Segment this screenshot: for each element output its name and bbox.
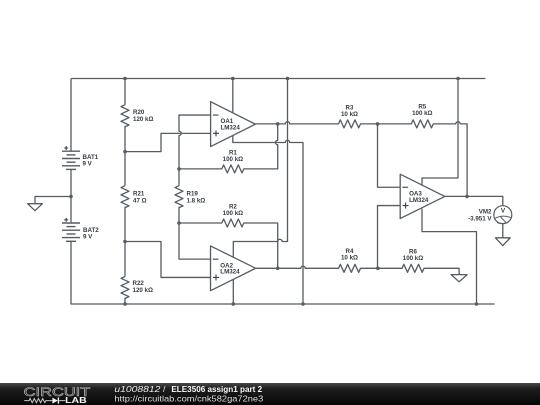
svg-text:100 kΩ: 100 kΩ <box>403 255 423 262</box>
svg-text:LM324: LM324 <box>409 197 429 204</box>
svg-text:R19: R19 <box>187 191 199 198</box>
svg-text:100 kΩ: 100 kΩ <box>223 156 243 163</box>
svg-text:http://circuitlab.com/cnk582ga: http://circuitlab.com/cnk582ga72ne3 <box>114 393 263 403</box>
svg-text:R21: R21 <box>133 191 145 198</box>
svg-text:9 V: 9 V <box>83 161 93 168</box>
svg-text:-3.951 V: -3.951 V <box>468 216 492 223</box>
svg-text:LAB: LAB <box>65 396 87 405</box>
svg-text:100 kΩ: 100 kΩ <box>223 210 243 217</box>
svg-text:VM2: VM2 <box>479 209 492 216</box>
svg-text:9 V: 9 V <box>83 234 93 241</box>
svg-text:10 kΩ: 10 kΩ <box>341 111 358 118</box>
svg-text:V: V <box>501 207 506 214</box>
svg-text:1.8 kΩ: 1.8 kΩ <box>187 198 206 205</box>
svg-text:R20: R20 <box>133 109 145 116</box>
svg-text:47 Ω: 47 Ω <box>133 198 147 205</box>
svg-text:120 kΩ: 120 kΩ <box>133 116 153 123</box>
svg-text:ELE3506 assign1 part 2: ELE3506 assign1 part 2 <box>171 384 262 394</box>
svg-text:10 kΩ: 10 kΩ <box>341 255 358 262</box>
svg-text:100 kΩ: 100 kΩ <box>412 110 432 117</box>
svg-text:LM324: LM324 <box>220 269 240 276</box>
svg-text:LM324: LM324 <box>221 125 241 132</box>
svg-text:120 kΩ: 120 kΩ <box>133 287 153 294</box>
svg-text:R22: R22 <box>133 280 145 287</box>
svg-text:u1008812: u1008812 <box>114 384 160 394</box>
